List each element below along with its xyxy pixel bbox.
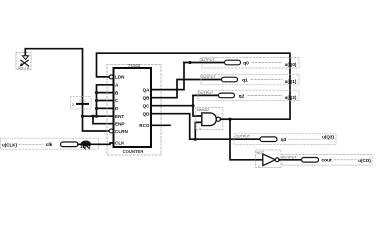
wire q0 row [184, 62, 225, 64]
wire QD to q3 row [151, 114, 260, 140]
output row q3 selection box [234, 134, 336, 145]
wire ABCD bus [97, 85, 114, 116]
node switch/ENT junction [81, 115, 84, 118]
node NAND output junction [228, 118, 231, 121]
switch S1 [20, 55, 29, 66]
node ENP junction [91, 115, 94, 118]
svg-text:OUTPUT: OUTPUT [200, 58, 216, 62]
svg-text:A: A [258, 164, 260, 168]
svg-text:RCO: RCO [139, 123, 150, 128]
leader q0 [252, 62, 282, 64]
connector q0 oval [225, 60, 241, 65]
svg-text:q3: q3 [281, 137, 287, 143]
wire C stub [97, 100, 114, 102]
wire RCO stub [151, 124, 170, 126]
svg-text:ENT: ENT [115, 114, 124, 119]
wire q3 to NAND input B [195, 122, 202, 139]
svg-text:COUNTER: COUNTER [123, 149, 144, 154]
NAND U2 selection box [196, 108, 223, 130]
VCC symbol [77, 103, 88, 105]
node C junction [95, 99, 98, 102]
svg-text:u(Q3): u(Q3) [322, 134, 334, 139]
svg-text:cout: cout [321, 158, 332, 164]
wire ENP drop [93, 116, 114, 124]
svg-text:OUTPUT: OUTPUT [198, 91, 214, 95]
wire QC to q2 riser and NAND input A [193, 95, 202, 116]
svg-text:OUTPUT: OUTPUT [282, 155, 298, 159]
node B junction [95, 91, 98, 94]
NAND U2 bubble [216, 117, 220, 121]
clk row selection box [1, 138, 99, 149]
svg-text:QA: QA [143, 87, 151, 92]
svg-text:u(Q1): u(Q1) [285, 79, 297, 84]
node bus-ENT junction [95, 115, 98, 118]
wire inverter to cout oval [279, 159, 301, 161]
node q3 junction [194, 138, 197, 141]
wire B stub [97, 92, 114, 94]
node D junction [95, 107, 98, 110]
svg-text:74163: 74163 [128, 63, 141, 68]
output row q2 selection box [198, 90, 299, 101]
svg-text:q2: q2 [239, 93, 245, 99]
svg-text:A: A [199, 126, 201, 130]
clk frequency label [81, 141, 91, 147]
svg-text:OUTPUT: OUTPUT [235, 135, 251, 139]
svg-text:VCC: VCC [79, 99, 87, 103]
wire D stub [97, 107, 114, 109]
svg-text:NAND2: NAND2 [197, 108, 209, 112]
wire QB to q1 riser [151, 80, 222, 98]
leader cout [334, 159, 356, 161]
inverter U3 bubble [275, 158, 279, 162]
inverter U3 [263, 154, 276, 166]
connector q3 oval [260, 137, 277, 142]
inverter U3 selection box [256, 150, 282, 168]
pin labels right [139, 87, 150, 128]
counter U1 selection box [107, 65, 161, 156]
connector q2 oval [219, 93, 235, 98]
leader q2 [248, 94, 282, 96]
svg-text:QC: QC [143, 103, 151, 108]
svg-text:QB: QB [143, 95, 151, 100]
output row q1 selection box [201, 74, 299, 85]
wire clk to CLK pin [78, 143, 114, 144]
svg-text:u(Q0): u(Q0) [285, 62, 297, 67]
leader q3 [289, 138, 320, 140]
output row q0 selection box [202, 58, 299, 69]
node QC junction [191, 104, 194, 107]
pin LDN bubble [109, 75, 113, 79]
wire LDN feedback [97, 53, 291, 119]
connector cout oval [302, 158, 319, 163]
svg-text:Key = A: Key = A [18, 66, 30, 70]
svg-text:LDN: LDN [115, 75, 125, 80]
wire NAND out [221, 118, 231, 120]
pin labels left [115, 75, 128, 146]
leader clk [19, 143, 43, 145]
wire QC stub [151, 105, 193, 107]
svg-text:QD: QD [143, 111, 151, 116]
VCC symbol selection box [71, 97, 92, 110]
svg-text:CLRN: CLRN [115, 129, 128, 134]
wire switch to CLRN vertical [25, 49, 109, 131]
wire q2 row [193, 94, 219, 96]
wire ENT row [83, 115, 114, 117]
svg-text:q0: q0 [243, 60, 249, 66]
wire QA to q0 riser [151, 63, 184, 90]
svg-text:ENP: ENP [115, 121, 124, 126]
NAND U2 [202, 113, 217, 126]
pin CLRN bubble [109, 129, 113, 133]
svg-text:u(Q2): u(Q2) [285, 95, 297, 100]
svg-text:CLK: CLK [115, 140, 125, 145]
output row cout selection box [282, 155, 372, 166]
svg-text:u(CO): u(CO) [358, 158, 371, 163]
node q0 [188, 61, 191, 64]
switch S1 selection box [16, 53, 31, 70]
svg-text:OUTPUT: OUTPUT [201, 75, 217, 79]
counter U1 74163 [114, 68, 152, 147]
svg-text:clk: clk [46, 142, 53, 148]
wire cout drop [230, 119, 262, 160]
connector q1 oval [222, 77, 238, 82]
svg-text:u(CLK): u(CLK) [2, 142, 17, 147]
svg-text:q1: q1 [242, 77, 248, 83]
connector clk oval [61, 142, 79, 147]
leader q1 [251, 79, 282, 81]
